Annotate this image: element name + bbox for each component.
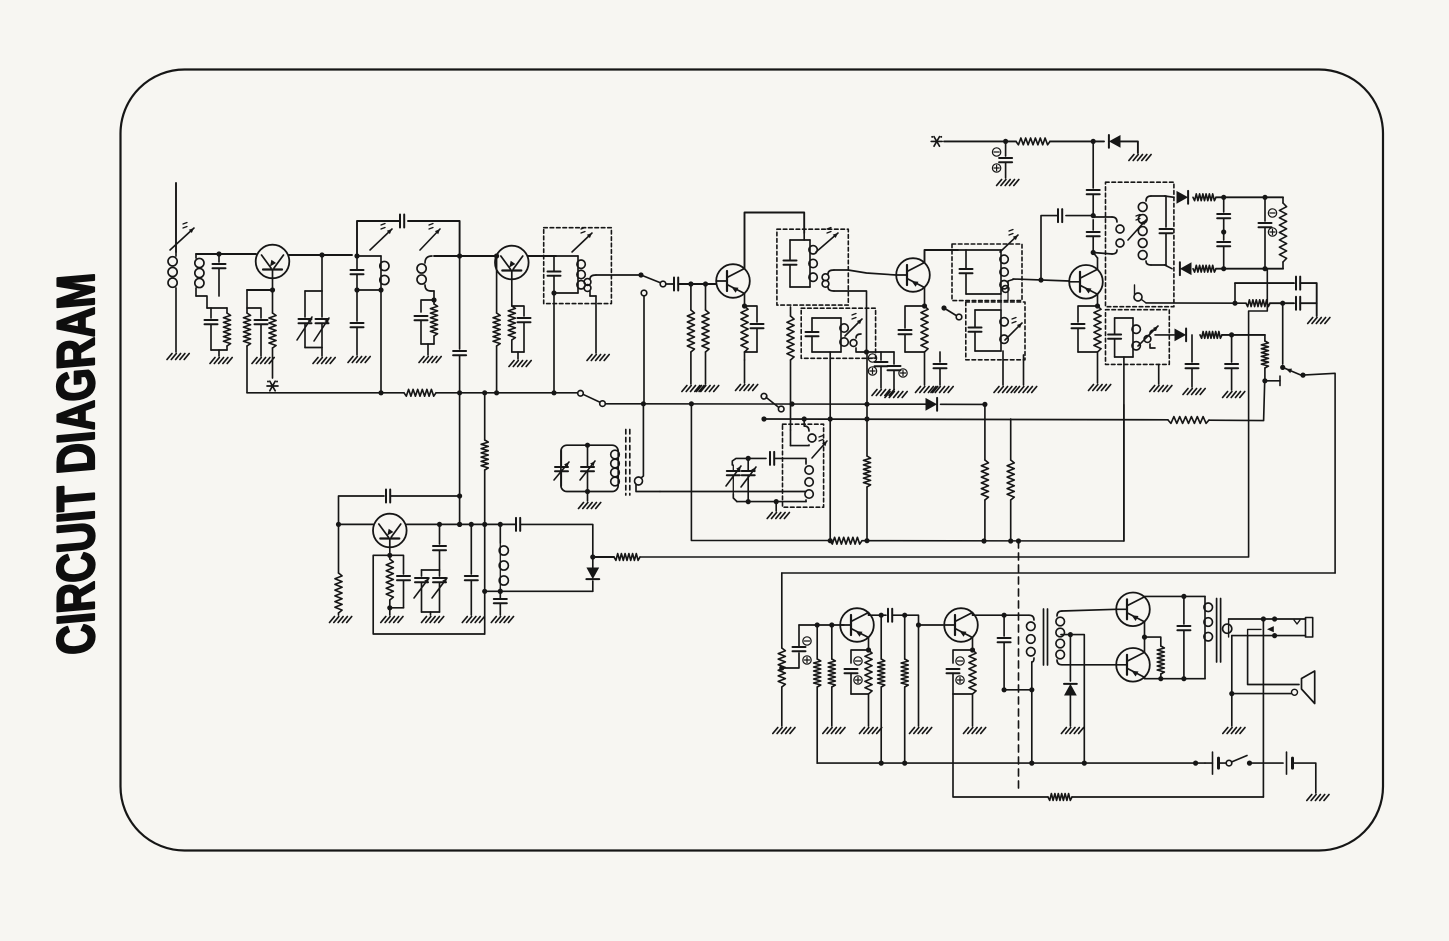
- core Tm (dashed): [626, 429, 630, 495]
- junction tank: [746, 456, 751, 504]
- resistor R16 (AVC): [614, 554, 640, 561]
- junction rail: [1003, 139, 1096, 144]
- capacitor C43 (tone): [1177, 596, 1190, 678]
- coil Tm frame: [561, 445, 618, 491]
- junction Q8 coll: [1002, 613, 1007, 618]
- resistor R21: [981, 404, 988, 541]
- coil T5: [806, 318, 849, 352]
- resistor R37 (drop B): [863, 352, 870, 541]
- wire: osc feed low: [484, 591, 486, 634]
- ground (C6): [348, 357, 370, 363]
- ground (C17): [931, 387, 953, 393]
- ground (Q6): [381, 617, 403, 623]
- junction C40: [879, 613, 884, 618]
- wire: osc out: [520, 524, 593, 557]
- node: Q1 emitter lead: [272, 279, 274, 314]
- wire: bus2 from C41: [953, 694, 1048, 797]
- wire: T4 sec return: [834, 291, 867, 352]
- capacitor C5 (T2 tank): [0, 0, 1, 1]
- junction tuning cap: [319, 252, 324, 257]
- wire: det to pot: [1267, 196, 1283, 198]
- wire: Q3 collector up and over: [745, 213, 805, 269]
- diode D6: [586, 557, 599, 591]
- electrolytic C15: [888, 352, 908, 390]
- variable capacitor VC1b: [314, 291, 329, 348]
- shield box T6a: [952, 244, 1022, 301]
- wire: ct bias: [1070, 635, 1084, 764]
- wire: audio feed drop: [781, 573, 783, 648]
- resistor R1 / capacitor C2 to ground: [205, 308, 231, 356]
- resistor R36 (emitter): [1145, 637, 1165, 679]
- ground (Q3): [736, 385, 758, 391]
- ground (C29): [1183, 389, 1205, 395]
- junction osc feed: [482, 522, 487, 594]
- wire: Q4 emitter: [924, 288, 926, 307]
- wire: D3 out: [1216, 268, 1267, 270]
- capacitor C34: [465, 524, 478, 615]
- wire: T6 returns: [1001, 294, 1024, 385]
- resistor R28 (vol series): [778, 648, 785, 726]
- ground (T6-1): [994, 387, 1016, 393]
- junction node A: [216, 251, 221, 256]
- transistor Q8: [944, 608, 978, 642]
- wire: Q5 collector: [1093, 253, 1097, 270]
- ground (C34): [462, 617, 484, 623]
- ground (C15): [885, 392, 907, 398]
- wire: band pole2 wire: [761, 416, 1168, 421]
- wire: Q6 feedback cap row: [339, 496, 385, 524]
- wire: tuning cap feed: [321, 255, 323, 291]
- junction mid bus: [828, 538, 1022, 544]
- capacitor C30: [1225, 335, 1238, 390]
- capacitor C6: [351, 290, 364, 355]
- coil T9 secondary: [1223, 619, 1232, 637]
- core T9: [1217, 599, 1221, 663]
- border frame: [121, 70, 1384, 851]
- ground (D7): [1061, 728, 1083, 734]
- wire: audio feed: [782, 572, 1335, 574]
- ground (T3 sec): [587, 355, 609, 361]
- coil Tm secondary: [635, 404, 661, 492]
- junction Q1 emitter: [270, 287, 275, 292]
- switch S1b: [941, 305, 961, 319]
- trimmer arrow T4: [816, 228, 838, 253]
- capacitor C21: [1087, 220, 1100, 253]
- transistor Q10: [1116, 648, 1150, 682]
- wire: AVC to diode node: [593, 556, 614, 558]
- junction speaker: [1229, 691, 1234, 696]
- junction osc return: [498, 589, 503, 594]
- resistor R32: [878, 615, 885, 763]
- junction Q8 base: [902, 613, 921, 628]
- diode D1 (rail): [1109, 135, 1121, 148]
- junction C20/C21: [1091, 213, 1096, 255]
- wire: Q4 collector: [925, 250, 959, 263]
- junction band right: [982, 402, 987, 407]
- resistor R9 (Q3 emitter): [741, 306, 748, 360]
- junction sec: [1261, 616, 1277, 638]
- title: CIRCUIT DIAGRAM: [47, 271, 106, 657]
- wire: AVC takeoff: [640, 269, 1267, 557]
- capacitor C42: [998, 615, 1011, 690]
- resistor R13: [1193, 194, 1216, 201]
- capacitor C1: [213, 254, 226, 296]
- capacitor C11: [674, 278, 678, 291]
- capacitor C32: [390, 555, 410, 608]
- phone jack J1: [1229, 618, 1313, 638]
- wire: osc return: [485, 590, 593, 592]
- resistor R11 (Q5 emitter): [1094, 306, 1101, 383]
- capacitor C9 (Q2 emitter): [512, 306, 531, 359]
- ground (T6-2): [1015, 387, 1037, 393]
- shield box T5: [801, 308, 875, 358]
- coil T3 secondary: [584, 275, 596, 353]
- variable capacitor VC2b: [432, 570, 447, 612]
- wire: T3 return: [553, 293, 555, 393]
- coil T7b: [1108, 318, 1140, 357]
- junction Q7 base: [815, 622, 835, 627]
- wire: rail to diode: [1050, 140, 1104, 142]
- coil T3 primary: [548, 256, 586, 293]
- capacitor C24: [1217, 197, 1230, 232]
- wire: RF bus right: [436, 392, 577, 394]
- coil Tm primary: [611, 450, 620, 486]
- coil T8 secondary: [1056, 611, 1065, 665]
- transistor Q7: [840, 608, 874, 642]
- wire: T8 to Q10: [1062, 664, 1116, 666]
- capacitor C31: [386, 490, 390, 503]
- junction Q7 emitter: [866, 647, 871, 652]
- trimmer arrow T6b: [1005, 318, 1022, 341]
- resistor R18: [1200, 332, 1222, 339]
- electrolytic C39: [845, 650, 869, 694]
- antenna rod: [175, 183, 177, 252]
- ground (R25): [330, 617, 352, 623]
- junction Q3 emitter: [742, 303, 747, 308]
- junction out top: [1181, 594, 1186, 599]
- junction Q4 emitter: [922, 303, 927, 308]
- wire: Q1 bias branch: [247, 289, 273, 291]
- diode D5 (band): [926, 398, 938, 411]
- battery B1: [1205, 752, 1219, 774]
- capacitor C4 (feedback): [400, 215, 404, 228]
- junction Q6 row: [437, 522, 503, 527]
- junction pole2: [802, 416, 870, 421]
- ground (R4): [419, 357, 441, 363]
- mechanical link (dashed): [1018, 541, 1020, 790]
- variable capacitor VC3: [554, 450, 569, 486]
- wire: T2 primary return: [380, 290, 382, 393]
- switch S1d (band pole2): [761, 393, 784, 411]
- coil T6b: [969, 310, 1009, 351]
- trimmer arrow T5: [845, 314, 862, 337]
- wire: det filter row1: [1235, 282, 1294, 284]
- resistor R27 (osc feed): [787, 307, 794, 446]
- capacitor C35: [494, 599, 507, 615]
- junction T3: [551, 290, 556, 295]
- capacitor C10 (T3): [0, 0, 1, 1]
- wire: T8 to Q9: [1062, 609, 1116, 611]
- resistor R20 (bus): [404, 389, 436, 396]
- diode D7 (bias): [1064, 635, 1077, 726]
- wire: feedback loop top: [357, 221, 460, 256]
- coil T7 primary: [1093, 217, 1124, 254]
- wire: Q2 row: [434, 255, 495, 257]
- capacitor C3 (bias bypass): [247, 308, 268, 356]
- transistor Q5: [1069, 265, 1103, 299]
- resistor R3 (bias): [243, 290, 250, 393]
- resistor R19 (pot lower): [1261, 335, 1268, 381]
- coil T2 secondary: [417, 256, 434, 300]
- wire: audio bus: [817, 762, 1205, 764]
- wire: C11 to Q3 base: [678, 283, 716, 285]
- electrolytic C14: [867, 352, 895, 388]
- electrolytic C19 (rail filter): [992, 141, 1012, 178]
- wire: Q8 emitter: [972, 638, 974, 651]
- junction det2: [1221, 266, 1268, 271]
- ground (Tm): [579, 492, 601, 509]
- resistor R23 (bus): [830, 537, 862, 544]
- capacitor C22 (to AGC): [1041, 209, 1093, 280]
- junction pot bottom: [1262, 378, 1267, 383]
- wire: T7b return: [1123, 357, 1125, 541]
- ground (antenna coil): [167, 354, 189, 360]
- resistor R31 (Q7 emitter): [865, 650, 872, 726]
- wire: det filter row2: [1146, 302, 1246, 304]
- coil T4 secondary: [822, 270, 834, 291]
- transistor Q9: [1116, 593, 1150, 627]
- coil T4b top: [791, 419, 817, 446]
- wire: C42 return: [1004, 690, 1032, 763]
- coil L1 primary (ferrite rod antenna): [168, 252, 177, 352]
- junction T2 top: [354, 253, 359, 258]
- coil T5 coupling: [850, 334, 866, 352]
- ground (rail): [1129, 155, 1151, 161]
- svg-text:CIRCUIT DIAGRAM: CIRCUIT DIAGRAM: [47, 271, 106, 657]
- ground (C35): [491, 617, 513, 623]
- variable capacitor VC5: [726, 465, 741, 502]
- transistor Q3: [716, 264, 750, 298]
- wire: Q5 emitter: [1097, 294, 1099, 306]
- capacitor C8 (in line down): [453, 256, 466, 393]
- wire: Tm out: [660, 491, 806, 493]
- junction Q2 base: [494, 253, 499, 258]
- resistor R24 (osc feed): [481, 393, 488, 592]
- ground (Q8): [964, 728, 986, 734]
- wire: T3 output: [596, 274, 641, 276]
- ground (VC2): [422, 617, 444, 623]
- wire: speaker gnd: [1231, 694, 1233, 726]
- diode D3 (detector-): [1180, 262, 1192, 275]
- resistor R14: [1193, 265, 1216, 272]
- diode D4 (2nd det): [1175, 329, 1187, 342]
- capacitor C29: [1186, 335, 1199, 387]
- wire: VC2 bottom: [422, 612, 440, 615]
- ground (R30): [823, 728, 845, 734]
- resistor R7: [687, 284, 694, 384]
- wire: feedback vert 2: [459, 496, 461, 524]
- variable capacitor VC6: [741, 458, 756, 501]
- wire: VC1 bottom bar: [305, 291, 322, 356]
- coil T9 primary: [1204, 596, 1213, 678]
- capacitor C16: [899, 306, 925, 352]
- resistor R25 (Q6 base): [335, 524, 342, 615]
- transistor Q2: [495, 246, 529, 280]
- trimmer arrow T7: [1128, 215, 1146, 241]
- resistor R2 (Q1 emitter): [269, 313, 276, 378]
- capacitor C36 (osc out): [516, 518, 520, 531]
- wire: Q7 collector row: [869, 613, 887, 616]
- power tap symbol (B-): [267, 381, 278, 391]
- capacitor C27: [1296, 277, 1300, 290]
- capacitor C33 (padder): [433, 524, 446, 570]
- wire: Q9/Q10 emitters: [1144, 622, 1146, 653]
- junction Q5 emitter: [1095, 303, 1100, 308]
- resistor R22: [1007, 419, 1014, 541]
- wire: filter link: [1234, 283, 1236, 303]
- wire: B2 to gnd: [1294, 763, 1316, 793]
- transistor Q1: [256, 245, 290, 279]
- wire: Q7 emitter: [868, 638, 870, 651]
- junction ct: [1068, 632, 1073, 637]
- junction tank gnd: [774, 499, 779, 504]
- ground (Q2): [509, 361, 531, 367]
- coil T4b main: [805, 462, 813, 502]
- switch S2 (volume/on-off): [1280, 365, 1306, 378]
- junction band wire: [641, 401, 870, 407]
- wire: tank top: [732, 458, 766, 465]
- transistor Q6: [373, 514, 407, 548]
- wire: Q6 row: [339, 523, 517, 525]
- ground (VC1): [313, 358, 335, 364]
- wire: D1 to ground: [1121, 141, 1138, 153]
- switch S1a: [638, 272, 665, 403]
- junction Q8 emitter: [970, 647, 975, 652]
- wire: Q3 emitter: [744, 294, 746, 307]
- junction Tm: [585, 443, 590, 495]
- junction L2: [498, 589, 503, 594]
- wire: pot top feed: [1282, 303, 1284, 364]
- battery B2: [1287, 752, 1293, 774]
- wire: switch to C11: [666, 283, 673, 285]
- capacitor C40 (coupling): [888, 609, 892, 622]
- capacitor C20: [1087, 141, 1100, 215]
- ground (Q7): [860, 728, 882, 734]
- wire: band wire: [605, 403, 925, 405]
- junction Q5 base: [1038, 277, 1043, 282]
- ground (Q4): [916, 387, 938, 393]
- electrolytic C41: [947, 650, 973, 694]
- ground (R8): [697, 386, 719, 392]
- ground (C14): [872, 390, 894, 396]
- junctions Q3 base: [688, 281, 708, 286]
- shield box T7a: [1106, 182, 1174, 307]
- wire: speaker leads: [1232, 636, 1299, 696]
- electrolytic C26: [1259, 197, 1277, 268]
- resistor R30: [828, 625, 835, 726]
- wire: Q10 collector: [1144, 651, 1146, 653]
- shield box T6b: [966, 302, 1025, 360]
- ground (tank): [767, 502, 789, 519]
- trimmer arrow L1: [170, 223, 194, 251]
- junction bus: [378, 390, 556, 395]
- wire: Q6 outer loop: [373, 555, 485, 634]
- ground (filter): [1308, 318, 1330, 324]
- wire: S2 to audio: [1303, 373, 1335, 573]
- transistor Q4: [896, 258, 930, 292]
- wire: T7 low to D3: [1165, 265, 1172, 269]
- wire: jack vertical: [1262, 619, 1264, 797]
- shield box T4b (osc coil): [783, 424, 824, 507]
- wire: B1 to B2: [1250, 762, 1284, 764]
- coil L2 (osc): [499, 524, 508, 599]
- ground (Q8 bias): [910, 728, 932, 734]
- junction C42: [1002, 687, 1035, 692]
- ground (C30): [1223, 392, 1245, 398]
- capacitor C37: [770, 452, 774, 465]
- ground (speaker): [1223, 728, 1245, 734]
- variable capacitor VC2: [414, 570, 440, 612]
- wire: Q9 collector: [1145, 595, 1206, 597]
- trimmer arrow T6a: [1000, 230, 1018, 253]
- variable capacitor VC4: [580, 445, 595, 491]
- resistor R17: [1246, 300, 1270, 307]
- trimmer arrow T3: [572, 228, 592, 253]
- wire: T7 to D2: [1165, 196, 1174, 197]
- trimmer arrow T2 sec: [420, 224, 440, 251]
- capacitor C25: [1217, 232, 1230, 269]
- wire: pole2 to pot: [1209, 382, 1265, 421]
- wire: L1 secondary to Q1 base: [196, 253, 256, 255]
- shield box T4: [777, 229, 848, 305]
- wire: tank bottom: [737, 501, 806, 503]
- capacitor C13 (T4 tank): [0, 0, 1, 1]
- junction filter: [1232, 301, 1285, 306]
- wire: T8 center tap: [1061, 634, 1070, 636]
- junction right vert: [457, 253, 462, 258]
- trimmer arrow T4b: [812, 436, 827, 459]
- wire: C28 to gnd: [1300, 303, 1317, 316]
- junction Q6 emitter: [387, 553, 392, 558]
- ground (C19): [997, 180, 1019, 186]
- wire: RF bus: [247, 392, 404, 394]
- wire: pot wiper: [1265, 376, 1280, 386]
- wire: Q10 emitter row: [1145, 677, 1206, 678]
- ground (R1C2): [210, 358, 232, 364]
- coil T8 primary: [1027, 615, 1036, 690]
- switch S1c (band): [578, 391, 606, 407]
- ground (R7): [682, 386, 704, 392]
- resistor R4 / capacitor C7: [415, 300, 438, 355]
- junction feedback: [457, 493, 462, 527]
- coil T4 primary: [784, 233, 818, 287]
- coil T7b coupling: [1144, 330, 1155, 348]
- wire: Q8 collector row: [973, 613, 1030, 616]
- resistor R34 (Q8 emitter): [969, 650, 976, 726]
- ground (R28): [773, 728, 795, 734]
- wire: det2 to pot: [1267, 268, 1283, 270]
- wire: feedback vertical: [459, 393, 461, 496]
- variable capacitor VC1: [297, 291, 312, 348]
- wire: band wire right: [941, 403, 985, 405]
- coil T6a: [958, 250, 1008, 294]
- coil T6a coupling: [1002, 280, 1013, 301]
- wire: Q2 to T3: [528, 255, 556, 257]
- coil L1 secondary: [195, 254, 207, 308]
- resistor R38 (AVC filter): [1168, 417, 1209, 424]
- speaker SP1: [1302, 671, 1315, 704]
- coil T2 primary: [351, 256, 390, 290]
